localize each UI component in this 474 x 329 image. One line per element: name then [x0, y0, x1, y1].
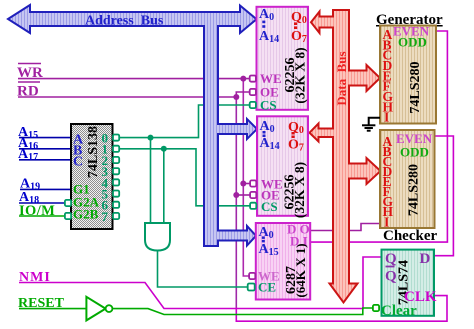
parity checker 74LS280 [380, 130, 435, 229]
junction dot O1 [161, 146, 167, 152]
wire A16 [19, 148, 71, 150]
wire WE2 branch [243, 183, 250, 185]
AND gate [145, 223, 170, 251]
decoder input bubble G2A [65, 200, 71, 206]
bubble WE2 [250, 180, 256, 186]
svg-text:I: I [384, 110, 389, 125]
svg-text:ODD: ODD [400, 145, 429, 160]
junction dot OE2 [233, 192, 239, 198]
svg-text:C: C [73, 155, 83, 170]
svg-text:74LS138: 74LS138 [86, 126, 101, 178]
wire RESET [19, 308, 86, 310]
wire A18 [19, 202, 66, 204]
svg-text:Data Bus: Data Bus [334, 51, 349, 105]
junction dot O0 [148, 135, 154, 141]
wire RD riser to OE1 [236, 92, 250, 97]
svg-text:(32K X 8): (32K X 8) [292, 162, 307, 218]
wire WR overline [18, 63, 41, 65]
address bus [8, 5, 257, 246]
parity generator 74LS280 [380, 24, 436, 125]
wire WR [18, 78, 250, 80]
junction dot WE2 [240, 181, 246, 187]
bubble WE1 [250, 76, 256, 82]
wire A19 [20, 188, 71, 190]
wire WR vertical branch to WE pins [243, 79, 249, 276]
wire RD [18, 96, 236, 98]
svg-text:Checker: Checker [383, 228, 437, 244]
wire RD overline [18, 81, 40, 83]
wire decoder O0 to CS1 [119, 105, 250, 138]
junction dot WR-WE1 [240, 76, 246, 82]
svg-text:Q: Q [385, 269, 397, 285]
bubble OE2 [250, 192, 256, 198]
svg-text:Clear: Clear [381, 303, 417, 319]
bubble CS1 [250, 102, 256, 108]
wire 6287 DO to checker I [310, 224, 380, 231]
ground [362, 118, 380, 131]
bubble WE3 [249, 273, 255, 279]
svg-text:RD: RD [17, 84, 39, 100]
svg-text:74LS280: 74LS280 [407, 164, 422, 216]
svg-text:IO/M: IO/M [19, 203, 55, 219]
wire 74LS74 Q to NMI [19, 257, 382, 309]
bubble CE [248, 284, 255, 291]
wire OE2 branch [236, 194, 250, 196]
svg-text:(32K X 8): (32K X 8) [293, 47, 308, 103]
svg-text:7: 7 [102, 209, 109, 224]
wire IO/M [19, 215, 66, 217]
svg-text:CE: CE [258, 280, 276, 295]
svg-text:RESET: RESET [18, 296, 65, 311]
svg-text:D: D [420, 251, 431, 267]
wire RD vertical branch to OE2 and CLK loop [235, 97, 237, 309]
svg-text:WR: WR [17, 65, 43, 81]
svg-text:74LS280: 74LS280 [408, 61, 423, 113]
junction dot RD [233, 94, 239, 100]
bubble Clear [373, 305, 379, 311]
wire O0 branch to AND input 1 [150, 138, 152, 223]
decoder input bubble G2B [65, 213, 71, 219]
svg-text:G2B: G2B [73, 207, 99, 222]
decoder 74LS138 [71, 124, 113, 229]
wire decoder O1 to CS2 [119, 149, 250, 206]
svg-text:CS: CS [261, 199, 278, 214]
decoder output bubbles 0-7 [113, 135, 119, 220]
inverter bubble [106, 305, 113, 312]
wire O1 branch to AND input 2 [163, 149, 165, 223]
wire A15 [19, 137, 71, 139]
bubble OE1 [250, 89, 256, 95]
wire generator EVEN to 6287 DI [310, 31, 447, 242]
parity memory chip 6287 [256, 222, 310, 300]
memory chip U2 62256 [257, 116, 308, 218]
svg-text:(64K X 1): (64K X 1) [293, 243, 308, 297]
wire RESET to Clear [112, 308, 372, 315]
svg-text:ODD: ODD [398, 35, 427, 50]
svg-text:Q: Q [385, 251, 397, 267]
svg-text:CS: CS [260, 98, 277, 113]
svg-text:NMI: NMI [19, 270, 51, 285]
flip-flop 74LS74 [381, 250, 437, 319]
inverter [86, 297, 105, 321]
bubble CS2 [250, 203, 256, 209]
memory chip U1 62256 [257, 7, 309, 113]
wire AND output to CE [158, 251, 250, 288]
svg-text:Address Bus: Address Bus [85, 14, 164, 29]
wire A17 [19, 159, 71, 161]
wire checker EVEN to 74LS74 D [434, 136, 453, 256]
data bus [310, 10, 381, 303]
